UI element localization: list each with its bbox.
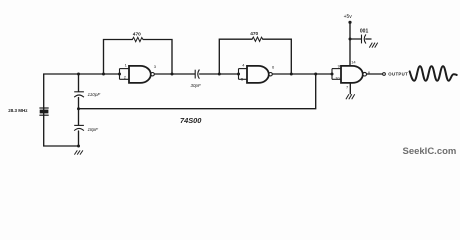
wire: U1c output to output terminal: [367, 73, 383, 75]
junction: divider feedback tap: [77, 107, 80, 110]
svg-text:18pF: 18pF: [88, 127, 100, 132]
svg-text:10: 10: [335, 75, 340, 80]
junction: U1b feedback right: [290, 73, 293, 76]
wire: bypass capacitor branch: [350, 38, 361, 40]
crystal Y1 28.3 MHz: [39, 108, 48, 115]
wire: bottom return to capacitor divider ground: [44, 145, 79, 147]
wire: capacitor divider column (top segment): [78, 74, 80, 92]
wire: U1b output to U1c input: [272, 73, 332, 75]
junction: U1b input: [237, 73, 240, 76]
junction: long feedback tap: [314, 73, 317, 76]
wire: bypass capacitor to ground: [366, 38, 371, 40]
wire: U1a output to coupling capacitor: [154, 73, 195, 75]
ground: bypass capacitor: [369, 43, 377, 48]
wire: main input line from crystal corner to U1a input: [44, 73, 120, 75]
svg-text:SeekIC.com: SeekIC.com: [403, 146, 457, 157]
ground: U1c pin 7: [346, 94, 355, 99]
svg-text:+5v: +5v: [344, 14, 353, 20]
wire: capacitor divider column (bottom segment): [78, 131, 80, 146]
svg-text:001: 001: [360, 29, 369, 35]
svg-text:470: 470: [250, 31, 258, 37]
svg-text:30pF: 30pF: [191, 83, 202, 88]
junction: U1c input: [331, 73, 334, 76]
svg-text:110pF: 110pF: [88, 92, 102, 97]
U1a input tie bar: [120, 69, 130, 80]
junction: crystal branch / divider tap: [77, 73, 80, 76]
node: output terminal: [383, 73, 386, 76]
junction: U1a feedback left: [102, 73, 105, 76]
NAND gate U1a: [129, 66, 154, 83]
wire: U1b feedback loop (right half): [263, 39, 292, 74]
junction: U1a input: [118, 73, 121, 76]
capacitor C2 18pF: [74, 125, 84, 130]
junction: U1b feedback left: [218, 73, 221, 76]
node +5V terminal: [348, 21, 351, 24]
svg-text:28.3 MHz: 28.3 MHz: [8, 108, 28, 113]
wire: capacitor divider column (middle segment): [78, 98, 80, 126]
NAND gate U1c: [341, 66, 367, 83]
wire: U1c pin 7 to ground: [349, 83, 351, 94]
resistor R1 470 (U1a feedback): [132, 37, 143, 41]
wire: long feedback line from divider tap to U1b output node: [79, 74, 316, 109]
wire: left vertical branch through crystal: [43, 74, 45, 146]
wire: +5V rail down to U1c pin 14: [349, 23, 351, 66]
resistor R2 470 (U1b feedback): [252, 37, 263, 41]
svg-text:470: 470: [133, 31, 141, 37]
U1c input tie bar: [332, 69, 341, 80]
ground: bottom of capacitor divider: [74, 150, 83, 154]
NAND gate U1b: [247, 66, 272, 83]
capacitor C4 .001 bypass: [362, 34, 366, 43]
svg-text:OUTPUT: OUTPUT: [388, 72, 408, 77]
junction: divider bottom: [77, 145, 80, 148]
junction: U1a feedback right: [171, 73, 174, 76]
capacitor C3 30pF (coupling): [195, 70, 199, 79]
svg-text:74S00: 74S00: [180, 116, 202, 125]
wire: U1b feedback loop (left half): [219, 39, 252, 74]
svg-text:14: 14: [351, 60, 356, 65]
capacitor C1 110pF: [74, 92, 84, 97]
wire: coupling capacitor to U1b input: [200, 73, 239, 75]
wire: U1a feedback loop (left half): [104, 40, 133, 75]
U1b input tie bar: [239, 69, 248, 80]
junction: +5V bypass tap: [349, 38, 352, 41]
wire: U1a feedback loop (right half): [143, 40, 172, 75]
output sine waveform: [410, 66, 457, 80]
